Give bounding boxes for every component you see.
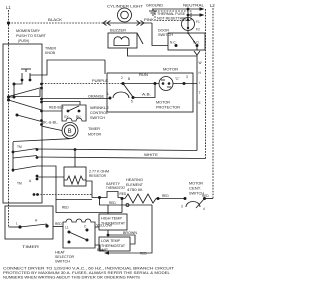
svg-text:TIMER: TIMER — [88, 127, 101, 131]
svg-text:PINK: PINK — [144, 18, 155, 22]
wire lamp feed — [103, 22, 152, 24]
svg-text:"C": "C" — [175, 77, 180, 81]
connector Y — [194, 51, 200, 58]
wire white return A — [37, 149, 197, 151]
svg-text:CENT.: CENT. — [189, 187, 201, 191]
svg-text:RED: RED — [120, 192, 127, 196]
svg-text:TIMER: TIMER — [22, 244, 39, 249]
svg-text:PROTECTOR: PROTECTOR — [156, 106, 181, 110]
svg-text:MOTOR: MOTOR — [88, 133, 102, 137]
svg-text:2: 2 — [121, 76, 123, 80]
wire from right contact up to start run — [30, 60, 105, 80]
wire BROWN — [108, 235, 135, 244]
resistor element — [64, 176, 86, 184]
timer contact arm 3 — [17, 115, 42, 122]
wire fuse to door switch — [187, 31, 189, 35]
wire L2 vertical dashed — [212, 8, 214, 199]
svg-text:CYLINDER LIGHT: CYLINDER LIGHT — [107, 5, 143, 9]
svg-text:PUSH TO START: PUSH TO START — [16, 34, 46, 38]
connector chevrons right — [137, 21, 145, 26]
svg-text:MOMENTARY: MOMENTARY — [16, 29, 41, 33]
svg-text:RED: RED — [109, 201, 116, 205]
svg-text:WHITE: WHITE — [144, 153, 158, 157]
lamp cylinder light — [118, 8, 132, 22]
svg-text:(PUSH): (PUSH) — [18, 39, 29, 43]
wire TM to resistor — [37, 176, 64, 178]
wire fuse to neutral — [187, 9, 189, 19]
wire TM stub — [37, 166, 56, 195]
svg-text:SELECTOR: SELECTOR — [55, 255, 75, 259]
svg-text:SWITCH: SWITCH — [90, 116, 106, 120]
svg-text:RED: RED — [55, 222, 62, 226]
svg-text:L1: L1 — [65, 226, 69, 230]
wire safety branch down — [100, 198, 153, 206]
svg-text:SWITCH: SWITCH — [158, 33, 174, 37]
svg-text:KNOB: KNOB — [45, 51, 55, 55]
thermal fuse box — [155, 11, 191, 21]
svg-text:T: T — [199, 91, 201, 95]
timer outer box — [3, 44, 42, 203]
wire resistor out — [86, 181, 100, 198]
svg-text:BUZZER: BUZZER — [110, 29, 127, 33]
svg-text:DOOR: DOOR — [158, 29, 170, 33]
resistor box — [64, 167, 86, 186]
motor switch arm — [123, 84, 133, 98]
svg-text:ELEMENT: ELEMENT — [126, 183, 143, 187]
motor switch terminal 2 — [122, 82, 125, 85]
timer contact arm 1 — [9, 88, 42, 97]
svg-text:W: W — [199, 61, 202, 65]
wire BLACK horizontal — [9, 22, 104, 24]
buzzer actuator — [137, 33, 143, 44]
wire BK-&-BL — [42, 126, 63, 131]
svg-text:1: 1 — [107, 92, 109, 96]
wire start run down to motor switch — [104, 60, 106, 74]
wire L1 to contact arm — [9, 96, 15, 98]
timer contact arm 2 — [9, 100, 42, 110]
buzzer coil — [114, 37, 129, 46]
svg-text:A.B.: A.B. — [142, 93, 151, 97]
svg-text:YELLOW: YELLOW — [96, 224, 112, 228]
svg-text:CONNECT DRYER TO 120/240 V.A.C: CONNECT DRYER TO 120/240 V.A.C., 60 HZ.,… — [3, 267, 174, 271]
high temp thermostat box — [99, 214, 127, 230]
svg-text:B: B — [128, 77, 130, 81]
wire neutral — [152, 8, 203, 10]
svg-text:HEATING: HEATING — [126, 178, 144, 182]
svg-text:BU: BU — [76, 115, 81, 119]
wire ORANGE — [42, 98, 110, 100]
wire PURPLE — [42, 83, 123, 85]
svg-text:4: 4 — [203, 207, 205, 211]
svg-text:E: E — [199, 101, 201, 105]
svg-text:4750 W.: 4750 W. — [127, 188, 143, 192]
wire L1 into timer — [9, 226, 21, 228]
heat selector switch box — [63, 219, 95, 248]
svg-text:F2: F2 — [196, 28, 200, 32]
svg-text:MOTOR: MOTOR — [156, 101, 171, 105]
wire YELLOW — [95, 226, 99, 228]
svg-text:2.77 K OHM: 2.77 K OHM — [89, 170, 109, 174]
wire timer motor return — [13, 139, 70, 142]
wire cent switch to L2 — [205, 198, 214, 200]
svg-text:RESISTOR: RESISTOR — [89, 174, 107, 178]
svg-text:BLACK: BLACK — [48, 18, 63, 22]
wire pink down to door switch — [152, 23, 168, 46]
svg-text:PURPLE: PURPLE — [92, 79, 108, 83]
wire from left contact to left rail — [14, 80, 22, 84]
svg-text:NUMBERS WHEN WRITING ABOUT THI: NUMBERS WHEN WRITING ABOUT THIS DRYER OR… — [3, 276, 140, 280]
svg-text:TM: TM — [17, 145, 22, 149]
timer motor — [62, 123, 78, 139]
svg-text:TM: TM — [17, 182, 22, 186]
timer cam box — [5, 206, 53, 239]
svg-text:I: I — [199, 81, 200, 85]
door switch box — [168, 33, 205, 50]
wire TM B to red run — [38, 194, 93, 196]
svg-text:NEUTRAL: NEUTRAL — [183, 4, 204, 8]
wire element branch down — [121, 199, 123, 213]
svg-text:B: B — [68, 129, 72, 135]
connector chevrons left — [103, 21, 111, 26]
svg-text:HIGH TEMP: HIGH TEMP — [101, 217, 122, 221]
svg-text:MOTOR: MOTOR — [163, 68, 179, 72]
wire BLUE — [95, 245, 104, 250]
svg-text:L2: L2 — [210, 3, 215, 8]
svg-text:3: 3 — [181, 205, 183, 209]
svg-text:F1: F1 — [196, 20, 200, 24]
svg-text:L: L — [16, 222, 18, 226]
svg-text:THERMAL FUSE: THERMAL FUSE — [157, 12, 185, 16]
svg-text:RED: RED — [162, 194, 169, 198]
wire start winding — [133, 84, 155, 98]
svg-text:SWITCH: SWITCH — [55, 260, 71, 264]
wire element to cent switch — [158, 198, 185, 200]
motor switch arc — [113, 92, 129, 98]
thermal fuse — [182, 18, 195, 31]
wire to low temp loop — [105, 205, 152, 253]
svg-text:RED: RED — [202, 194, 209, 198]
wire timer to heat selector — [53, 226, 63, 228]
svg-text:BLUE: BLUE — [97, 248, 108, 252]
safety thermostat — [98, 196, 101, 199]
node resistor feed — [74, 148, 77, 151]
svg-text:BROWN: BROWN — [123, 231, 138, 235]
wire door switch out — [196, 46, 198, 51]
svg-text:N.C.: N.C. — [170, 41, 176, 45]
svg-text:BK.-&-BL.: BK.-&-BL. — [42, 121, 58, 125]
contact stubs push-to-start — [21, 73, 23, 79]
svg-text:LOW TEMP: LOW TEMP — [101, 239, 120, 243]
wire L1 vertical dashed — [8, 10, 10, 227]
motor switch terminal 1 — [109, 97, 112, 100]
svg-text:L1: L1 — [6, 5, 11, 10]
wire white down — [196, 58, 198, 151]
buzzer box — [108, 33, 137, 48]
svg-text:RUN: RUN — [139, 73, 149, 77]
svg-text:THERMOSTAT: THERMOSTAT — [106, 186, 125, 190]
heating element — [122, 194, 158, 203]
wire red branch — [56, 199, 92, 201]
wire RED-BLK — [42, 110, 62, 112]
svg-text:GROUND: GROUND — [146, 4, 164, 8]
svg-text:RED: RED — [140, 252, 147, 256]
node junction L1-black — [7, 21, 10, 24]
svg-text:HEAT: HEAT — [55, 251, 65, 255]
svg-text:MOTOR: MOTOR — [189, 182, 204, 186]
svg-text:CONTROL: CONTROL — [90, 111, 108, 115]
svg-text:ORANGE: ORANGE — [88, 95, 104, 99]
svg-text:PROTECTED BY MAXIMUM 30 A. FUS: PROTECTED BY MAXIMUM 30 A. FUSES. ALWAYS… — [3, 271, 170, 275]
svg-text:TIMER: TIMER — [45, 47, 57, 51]
svg-text:RED-BLK: RED-BLK — [49, 106, 65, 110]
svg-text:RED: RED — [62, 206, 69, 210]
switch push-to-start actuator — [21, 68, 31, 70]
svg-text:5: 5 — [131, 100, 133, 104]
motor protector — [159, 77, 173, 91]
wire high to brown — [107, 230, 109, 235]
wire to wrinkle switch top — [42, 102, 80, 106]
motor box — [107, 73, 193, 112]
wire main to protector — [123, 83, 159, 85]
svg-text:3: 3 — [186, 75, 188, 79]
wrinkle control switch box — [62, 105, 86, 121]
door switch arm — [188, 33, 196, 44]
wire protector to C terminal — [173, 83, 197, 85]
wire neutral vertical dashed — [205, 9, 207, 159]
low temp thermostat box — [99, 237, 130, 251]
wire to high temp thermostat — [107, 205, 109, 214]
svg-text:WRINKLE: WRINKLE — [90, 106, 109, 110]
wire white return B — [37, 157, 206, 159]
wire buzzer to white — [128, 48, 198, 56]
